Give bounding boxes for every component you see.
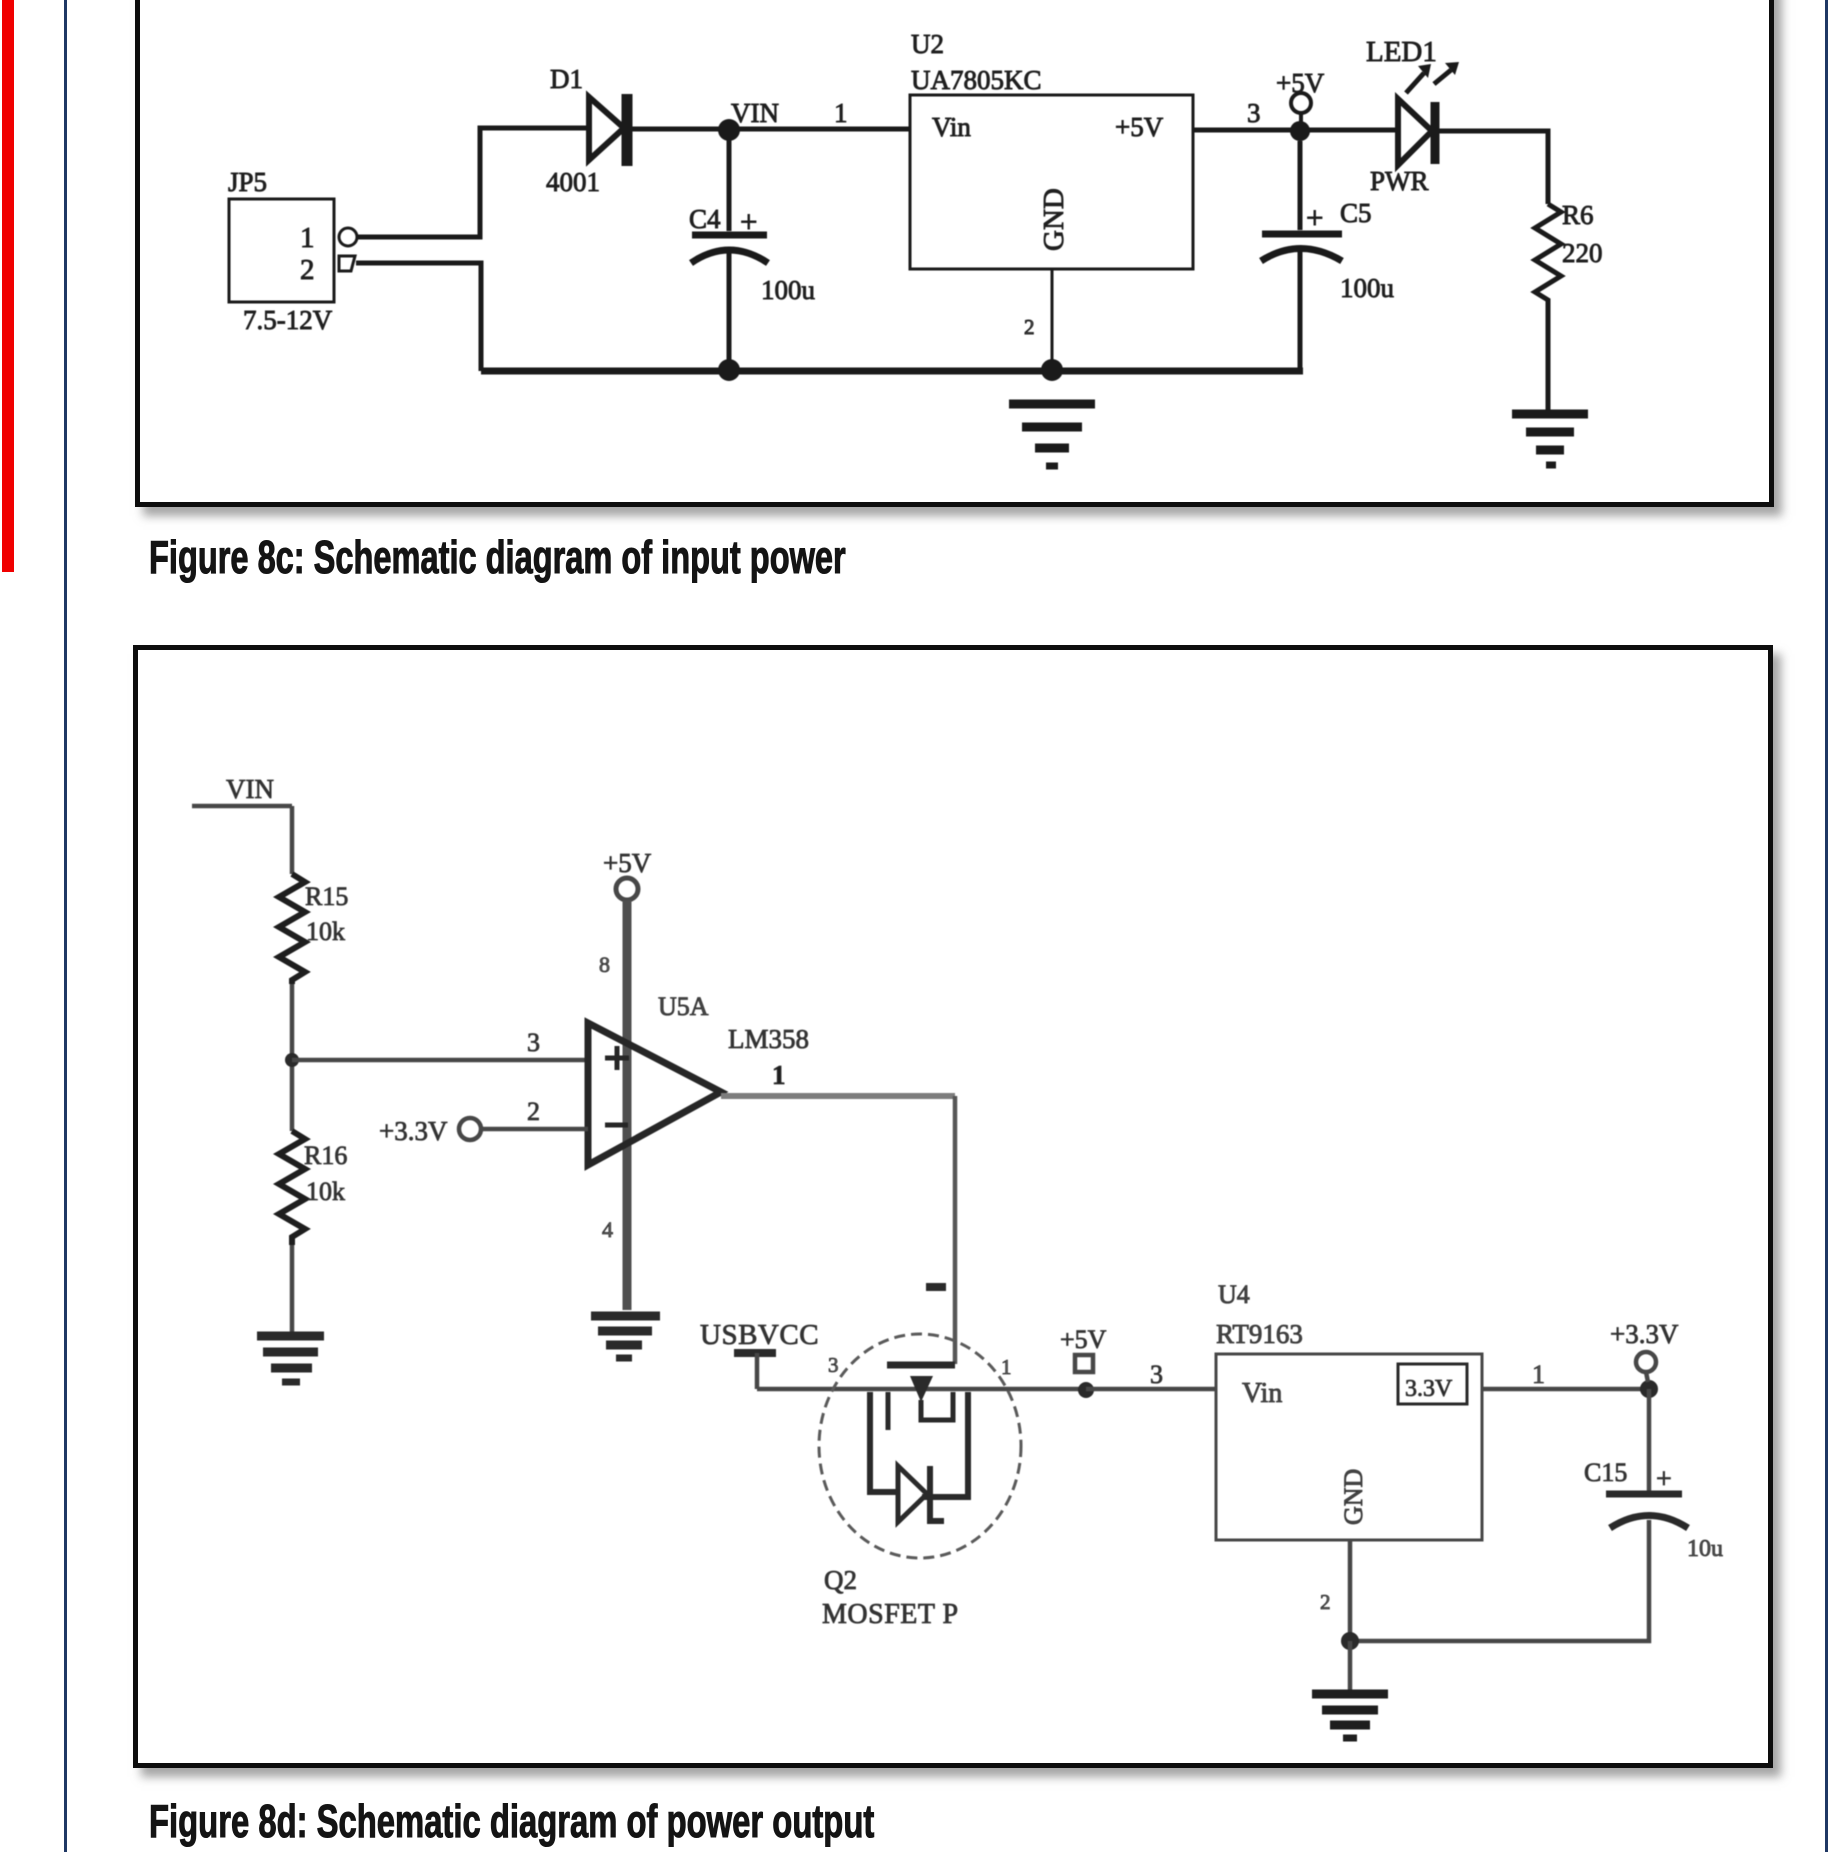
svg-text:10k: 10k: [306, 917, 345, 946]
svg-text:1: 1: [1001, 1355, 1012, 1379]
wire +5V node to U4: [1086, 1387, 1216, 1392]
connector JP5: [229, 199, 334, 302]
svg-text:U2: U2: [911, 29, 944, 59]
svg-text:U4: U4: [1218, 1280, 1250, 1309]
junction dot +3.3V out: [1640, 1380, 1658, 1398]
svg-text:4001: 4001: [546, 167, 600, 197]
wire R6 to ground: [1546, 303, 1551, 410]
svg-text:+: +: [740, 204, 757, 239]
op-amp U5A triangle: [588, 1023, 721, 1165]
U4 3.3V inner box: [1398, 1364, 1467, 1404]
figure 8c frame: [135, 0, 1774, 507]
op-amp plus input mark: [605, 1046, 629, 1070]
junction dot gnd: [1341, 1632, 1359, 1650]
wire +5V supply rail: [623, 900, 632, 1310]
svg-text:RT9163: RT9163: [1216, 1319, 1303, 1349]
minus tick on gate wire: [926, 1283, 946, 1291]
svg-text:220: 220: [1562, 238, 1603, 268]
svg-text:PWR: PWR: [1370, 166, 1429, 196]
svg-text:GND: GND: [1038, 188, 1070, 251]
regulator U2 box: [910, 95, 1193, 269]
node +3.3V circle: [459, 1118, 481, 1140]
svg-text:JP5: JP5: [228, 167, 267, 197]
svg-text:MOSFET P: MOSFET P: [822, 1599, 959, 1630]
node +5V square: [1075, 1355, 1093, 1372]
svg-text:R16: R16: [304, 1141, 347, 1170]
ground symbol under U2: [1009, 404, 1095, 466]
net bar VIN: [192, 804, 292, 809]
svg-text:3: 3: [828, 1353, 839, 1377]
Q2 source bracket: [870, 1392, 898, 1492]
navy page border line left: [64, 0, 67, 1852]
resistor R6 zigzag: [1535, 204, 1561, 303]
svg-text:2: 2: [300, 254, 315, 286]
svg-text:Vin: Vin: [1242, 1378, 1282, 1409]
wire R16 to ground: [290, 1245, 295, 1332]
wire JP5 pin1 to diode: [357, 128, 588, 237]
svg-text:2: 2: [1320, 1590, 1331, 1614]
ground under U4: [1312, 1694, 1388, 1738]
resistor R15: [279, 874, 305, 984]
U4 GND pin wire: [1348, 1540, 1353, 1641]
svg-text:1: 1: [300, 222, 315, 254]
junction dot +5V: [1290, 121, 1310, 141]
op-amp minus input mark: [605, 1123, 628, 1128]
svg-text:+: +: [1306, 200, 1323, 235]
node VIN junction: [718, 119, 740, 141]
wire op-amp output to MOSFET gate: [721, 1093, 955, 1099]
wire R15 to R16: [290, 984, 295, 1131]
svg-text:+3.3V: +3.3V: [1610, 1319, 1679, 1349]
wire USBVCC to +5V node: [757, 1387, 1086, 1392]
ground symbol under R6: [1512, 414, 1588, 465]
svg-text:C15: C15: [1584, 1458, 1627, 1487]
svg-text:+3.3V: +3.3V: [379, 1116, 448, 1146]
transistor Q2 dashed circle: [819, 1334, 1021, 1558]
wire D1 to U2: [632, 127, 910, 132]
svg-text:+5V: +5V: [603, 848, 652, 878]
svg-text:3.3V: 3.3V: [1405, 1376, 1453, 1402]
svg-text:10k: 10k: [306, 1177, 345, 1206]
svg-text:D1: D1: [550, 64, 583, 94]
caption: Figure 8d: [149, 1798, 874, 1844]
svg-text:10u: 10u: [1687, 1536, 1723, 1562]
svg-text:3: 3: [1150, 1360, 1163, 1389]
svg-text:UA7805KC: UA7805KC: [911, 65, 1042, 95]
junction dot C4 bottom: [718, 359, 740, 381]
wire junction to ground symbol: [1348, 1641, 1353, 1690]
svg-text:+5V: +5V: [1276, 68, 1325, 98]
navy page border line right: [1825, 0, 1828, 1852]
wire U4 output: [1482, 1387, 1649, 1392]
capacitor C15: [1647, 1389, 1652, 1491]
wire VIN down to R15: [290, 806, 295, 874]
svg-text:LED1: LED1: [1366, 36, 1437, 68]
ground under supply rail: [591, 1316, 660, 1358]
svg-text:Q2: Q2: [824, 1565, 857, 1595]
svg-text:3: 3: [527, 1028, 540, 1057]
svg-text:U5A: U5A: [658, 992, 709, 1021]
Q2 inner bracket: [921, 1392, 953, 1420]
svg-text:100u: 100u: [761, 275, 816, 305]
junction dot U2 gnd: [1041, 359, 1063, 381]
bottom rail wire: [481, 368, 1303, 375]
svg-text:+5V: +5V: [1060, 1325, 1107, 1354]
svg-text:7.5-12V: 7.5-12V: [243, 305, 333, 335]
wire C15 bottom to gnd rail: [1350, 1520, 1649, 1641]
svg-text:VIN: VIN: [226, 774, 274, 804]
junction dot +5V node: [1078, 1382, 1094, 1398]
svg-text:2: 2: [1024, 315, 1035, 339]
svg-text:1: 1: [834, 98, 848, 128]
wire JP5 pin2 to bottom rail: [356, 263, 481, 371]
JP5 pin 1 circle: [339, 228, 357, 246]
svg-text:1: 1: [1532, 1360, 1545, 1389]
svg-text:4: 4: [602, 1217, 613, 1242]
Q2 channel stub: [886, 1392, 891, 1430]
ground under R16: [257, 1336, 324, 1382]
svg-text:100u: 100u: [1340, 273, 1395, 303]
svg-text:LM358: LM358: [728, 1024, 809, 1054]
svg-text:Vin: Vin: [932, 112, 971, 142]
svg-text:GND: GND: [1339, 1469, 1368, 1525]
U2 GND pin wire: [1051, 269, 1054, 370]
Q2 body arrow blob: [910, 1376, 933, 1402]
figure 8d frame: [133, 645, 1773, 1768]
Q2 gate bar: [887, 1362, 955, 1369]
Q2 body diode: [898, 1466, 927, 1522]
Q2 drain bracket: [922, 1392, 968, 1497]
wire divider to op-amp +: [292, 1058, 588, 1063]
capacitor C4: [727, 140, 732, 231]
svg-text:+: +: [1656, 1464, 1672, 1495]
hidden-alpha red bar (raw RGB of source): [2, 0, 14, 572]
svg-text:R6: R6: [1562, 200, 1594, 230]
wire U2 +5V output: [1193, 128, 1397, 133]
svg-text:VIN: VIN: [731, 98, 779, 128]
svg-text:8: 8: [599, 952, 610, 977]
node +3.3V out circle: [1636, 1352, 1656, 1372]
svg-text:C5: C5: [1340, 198, 1372, 228]
node +5V circle: [1291, 93, 1311, 113]
svg-text:2: 2: [527, 1097, 540, 1126]
svg-text:R15: R15: [305, 882, 348, 911]
caption: Figure 8c: [149, 534, 846, 580]
wire +3.3V to op-amp minus: [481, 1127, 588, 1132]
svg-text:C4: C4: [689, 204, 721, 234]
resistor R16: [279, 1131, 305, 1245]
svg-text:1: 1: [772, 1060, 786, 1090]
net bar USBVCC: [734, 1349, 776, 1357]
JP5 pin 2 circle: [339, 256, 355, 271]
node divider junction: [285, 1053, 299, 1067]
diode D1: [589, 97, 624, 160]
regulator U4 box: [1216, 1354, 1482, 1540]
capacitor C5: [1298, 141, 1303, 230]
LED LED1: [1398, 99, 1432, 165]
wire LED to R6: [1439, 131, 1548, 204]
svg-text:3: 3: [1247, 98, 1261, 128]
svg-text:+5V: +5V: [1115, 112, 1164, 142]
svg-text:USBVCC: USBVCC: [700, 1319, 819, 1351]
node +5V circle (op-amp supply): [616, 878, 638, 900]
